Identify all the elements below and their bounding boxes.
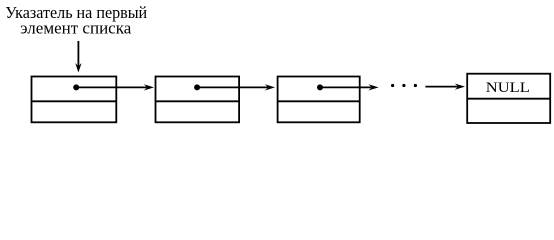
svg-text:NULL: NULL [486,80,530,96]
svg-text:элемент списка: элемент списка [20,19,131,38]
